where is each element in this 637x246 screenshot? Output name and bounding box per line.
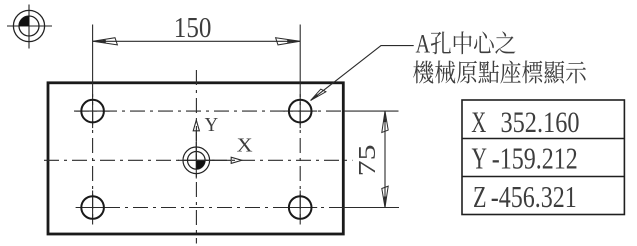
svg-text:-456.321: -456.321 — [491, 179, 577, 214]
svg-text:Z: Z — [473, 179, 487, 214]
svg-text:75: 75 — [354, 144, 381, 176]
svg-text:X: X — [237, 135, 253, 157]
hole bottom-right — [289, 196, 312, 219]
dimension 150 line — [93, 40, 300, 42]
svg-text:Y: Y — [472, 141, 488, 176]
centerline: top hole row — [41, 25, 399, 244]
center origin symbol — [183, 147, 210, 174]
svg-text:150: 150 — [174, 13, 212, 44]
svg-text:X: X — [471, 106, 486, 139]
hole top-right A — [289, 100, 312, 123]
Y axis — [193, 120, 242, 163]
plate outline — [48, 83, 343, 234]
leader to hole A — [311, 46, 414, 101]
dimension 75 line — [384, 111, 386, 207]
coordinate table frame — [462, 100, 624, 215]
leader arrowhead — [311, 89, 326, 100]
dim 75 down arrow — [382, 186, 388, 207]
X axis — [196, 159, 231, 161]
hole crosshair BR — [283, 207, 317, 209]
svg-text:352.160: 352.160 — [501, 106, 580, 139]
svg-text:-159.212: -159.212 — [492, 141, 578, 176]
hole crosshair TL — [76, 110, 110, 112]
note line2 CJK 機械原點座標顯示 — [413, 60, 586, 83]
centerline: plate vertical center — [195, 66, 197, 244]
hole crosshair TR — [283, 110, 317, 112]
hole bottom-left — [81, 196, 104, 219]
dim 150 left arrow — [93, 38, 117, 45]
centerline: middle row — [41, 159, 353, 161]
hole top-left — [81, 100, 311, 219]
hole crosshair BL — [76, 207, 110, 209]
centerline: left hole column / 150 extension — [92, 25, 94, 83]
note line1 CJK 孔中心之 — [431, 31, 516, 54]
centerline: right hole column / 150 extension — [299, 25, 301, 83]
center symbol crosshair — [178, 159, 215, 161]
machine origin symbol (top-left) — [7, 5, 52, 49]
centerline: bottom hole row — [77, 207, 344, 209]
svg-text:A: A — [416, 29, 431, 58]
svg-text:Y: Y — [205, 114, 219, 136]
dim 150 right arrow — [276, 38, 300, 45]
dim 75 up arrow — [382, 111, 388, 132]
